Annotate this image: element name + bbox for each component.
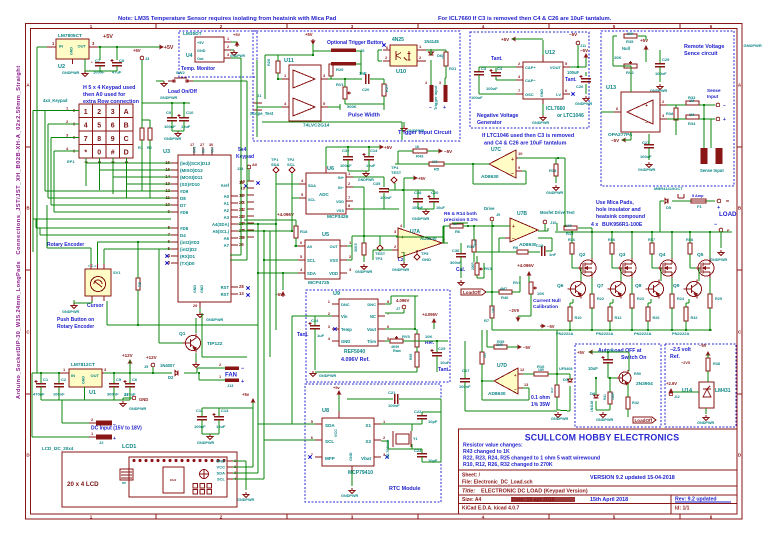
svg-text:2: 2 bbox=[394, 244, 397, 249]
svg-text:R36: R36 bbox=[568, 238, 575, 242]
svg-text:R6: R6 bbox=[455, 229, 461, 234]
svg-text:C5: C5 bbox=[116, 377, 122, 382]
svg-text:D: D bbox=[738, 453, 742, 458]
svg-text:+12V: +12V bbox=[146, 355, 157, 360]
svg-text:TEST: TEST bbox=[391, 170, 402, 175]
svg-text:Q6: Q6 bbox=[557, 283, 564, 289]
svg-text:+5V: +5V bbox=[133, 48, 141, 53]
svg-text:2: 2 bbox=[328, 311, 331, 316]
svg-text:R6 & R14 both: R6 & R14 both bbox=[444, 211, 477, 217]
svg-text:+5V: +5V bbox=[103, 34, 113, 40]
svg-text:GNDPWR: GNDPWR bbox=[697, 421, 715, 425]
svg-text:PN2222A: PN2222A bbox=[596, 331, 613, 336]
svg-text:249K: 249K bbox=[473, 239, 477, 247]
svg-text:OUT: OUT bbox=[91, 373, 100, 378]
svg-text:7: 7 bbox=[348, 195, 351, 200]
svg-text:100uF: 100uF bbox=[640, 154, 652, 159]
svg-text:−: − bbox=[723, 103, 726, 109]
svg-text:RV3: RV3 bbox=[484, 266, 492, 271]
svg-text:R29: R29 bbox=[336, 67, 344, 72]
svg-text:3: 3 bbox=[66, 133, 69, 138]
svg-text:LV: LV bbox=[556, 92, 561, 97]
svg-text:RV1: RV1 bbox=[336, 82, 344, 87]
svg-text:4N25: 4N25 bbox=[392, 37, 404, 43]
svg-text:LM431: LM431 bbox=[715, 388, 731, 394]
svg-text:1: 1 bbox=[227, 37, 229, 41]
svg-text:−5V: −5V bbox=[580, 48, 588, 53]
svg-text:−: − bbox=[645, 120, 648, 126]
svg-text:+5V: +5V bbox=[418, 176, 426, 181]
svg-text:29: 29 bbox=[193, 304, 197, 308]
svg-text:5: 5 bbox=[300, 254, 303, 259]
svg-text:SDA: SDA bbox=[307, 271, 316, 276]
svg-text:#: # bbox=[111, 150, 115, 157]
svg-text:R12: R12 bbox=[615, 316, 622, 320]
svg-text:5: 5 bbox=[301, 192, 304, 197]
svg-text:6: 6 bbox=[111, 123, 115, 130]
svg-text:C6: C6 bbox=[132, 377, 138, 382]
svg-text:+: + bbox=[443, 105, 446, 111]
svg-text:GNDPWR: GNDPWR bbox=[710, 258, 728, 262]
svg-text:1: 1 bbox=[52, 41, 55, 46]
svg-text:DC Input (15V to 18V): DC Input (15V to 18V) bbox=[91, 426, 142, 432]
svg-text:1nF: 1nF bbox=[549, 252, 557, 257]
svg-text:1N4148: 1N4148 bbox=[590, 401, 594, 412]
svg-text:−2V9: −2V9 bbox=[509, 308, 520, 313]
svg-text:SV1: SV1 bbox=[113, 270, 121, 275]
svg-text:3: 3 bbox=[349, 267, 352, 272]
svg-text:100uF: 100uF bbox=[567, 70, 580, 75]
svg-text:Tant.: Tant. bbox=[438, 367, 450, 373]
svg-text:GND: GND bbox=[422, 257, 431, 262]
svg-text:Remote Voltage: Remote Voltage bbox=[684, 44, 724, 50]
svg-text:2: 2 bbox=[91, 417, 94, 422]
svg-text:100nF: 100nF bbox=[340, 163, 352, 168]
svg-text:(int2)D2: (int2)D2 bbox=[180, 247, 197, 252]
svg-text:Vin: Vin bbox=[341, 314, 348, 319]
svg-text:F1: F1 bbox=[697, 204, 702, 209]
svg-text:Temp. Monitor: Temp. Monitor bbox=[181, 66, 215, 72]
svg-text:SDA: SDA bbox=[217, 471, 226, 476]
svg-text:R8: R8 bbox=[138, 282, 142, 287]
svg-text:SCL: SCL bbox=[217, 477, 226, 482]
svg-text:Y1: Y1 bbox=[413, 437, 418, 441]
svg-text:Vbat: Vbat bbox=[361, 456, 371, 461]
svg-text:10pF: 10pF bbox=[428, 419, 438, 424]
svg-text:+5v: +5v bbox=[333, 385, 341, 390]
svg-text:C8: C8 bbox=[119, 58, 125, 63]
svg-text:C17: C17 bbox=[462, 368, 470, 373]
svg-text:1N4007: 1N4007 bbox=[160, 363, 175, 368]
svg-text:VSS: VSS bbox=[330, 258, 339, 263]
svg-text:or LTC1046: or LTC1046 bbox=[557, 113, 584, 119]
svg-text:Q5: Q5 bbox=[697, 252, 704, 258]
svg-text:+5V: +5V bbox=[384, 145, 392, 150]
svg-text:CAP−: CAP− bbox=[525, 78, 536, 83]
svg-text:MFP: MFP bbox=[325, 456, 335, 461]
svg-text:J1: J1 bbox=[257, 93, 262, 98]
svg-text:A6: A6 bbox=[224, 236, 230, 241]
svg-text:8: 8 bbox=[97, 136, 101, 143]
svg-text:2: 2 bbox=[383, 435, 386, 440]
svg-text:U10: U10 bbox=[396, 69, 406, 75]
svg-text:BUK956R1-100E: BUK956R1-100E bbox=[602, 222, 643, 228]
svg-text:4.096V: 4.096V bbox=[396, 298, 409, 303]
svg-text:NC: NC bbox=[370, 314, 376, 319]
svg-text:U3: U3 bbox=[163, 149, 170, 155]
svg-text:U8: U8 bbox=[322, 408, 329, 414]
svg-text:R26: R26 bbox=[653, 316, 660, 320]
svg-text:C36: C36 bbox=[452, 248, 460, 253]
svg-text:C10: C10 bbox=[186, 110, 194, 115]
svg-text:GND: GND bbox=[341, 339, 350, 344]
svg-text:C2: C2 bbox=[61, 377, 67, 382]
svg-text:6: 6 bbox=[565, 88, 568, 93]
svg-text:m: m bbox=[726, 199, 729, 203]
svg-text:−5V: −5V bbox=[547, 324, 555, 329]
svg-text:GND: GND bbox=[70, 47, 74, 55]
svg-text:C35: C35 bbox=[373, 181, 381, 186]
svg-text:2: 2 bbox=[348, 181, 351, 186]
svg-text:LCD_I2C_20x4: LCD_I2C_20x4 bbox=[42, 446, 74, 451]
svg-text:J5: J5 bbox=[144, 365, 148, 369]
svg-text:1: 1 bbox=[63, 367, 66, 372]
svg-text:J7: J7 bbox=[396, 307, 400, 311]
svg-text:6: 6 bbox=[387, 324, 390, 329]
svg-text:−: − bbox=[511, 171, 514, 177]
svg-text:R33: R33 bbox=[688, 95, 696, 100]
svg-text:Tant.: Tant. bbox=[565, 77, 577, 83]
svg-text:R21: R21 bbox=[449, 66, 457, 71]
svg-text:Trigger Input Circuit: Trigger Input Circuit bbox=[398, 130, 452, 136]
svg-text:Generator: Generator bbox=[477, 120, 502, 126]
svg-text:U11: U11 bbox=[284, 58, 294, 64]
svg-text:1: 1 bbox=[383, 419, 386, 424]
svg-text:A4(SDA): A4(SDA) bbox=[212, 222, 230, 227]
svg-text:GNDPWR: GNDPWR bbox=[197, 441, 215, 445]
svg-text:20 x 4 LCD: 20 x 4 LCD bbox=[67, 481, 99, 488]
svg-text:100nF: 100nF bbox=[194, 424, 206, 429]
svg-text:A0: A0 bbox=[224, 194, 230, 199]
svg-text:GNDPWR: GNDPWR bbox=[551, 417, 569, 421]
svg-text:LoadOff: LoadOff bbox=[463, 290, 481, 295]
svg-text:heatsink compound: heatsink compound bbox=[596, 214, 645, 220]
svg-text:GNDPWR: GNDPWR bbox=[62, 310, 80, 314]
svg-text:C26: C26 bbox=[576, 84, 584, 89]
svg-text:Connections_JST/JST_XH_B02B-XH: Connections_JST/JST_XH_B02B-XH-A_02x2.50… bbox=[16, 65, 22, 254]
svg-text:+5V: +5V bbox=[233, 32, 241, 37]
svg-text:Note: LM35 Temperature Sensor: Note: LM35 Temperature Sensor requires i… bbox=[118, 16, 337, 22]
svg-text:Rotary Encoder: Rotary Encoder bbox=[57, 324, 94, 330]
svg-text:< C =: < C = bbox=[88, 264, 96, 268]
svg-text:C20: C20 bbox=[431, 190, 439, 195]
svg-text:hole insulator and: hole insulator and bbox=[596, 207, 641, 213]
svg-text:R58: R58 bbox=[686, 238, 693, 242]
svg-text:4: 4 bbox=[300, 267, 303, 272]
svg-text:Push Button on: Push Button on bbox=[57, 317, 94, 323]
svg-text:10uF: 10uF bbox=[588, 366, 598, 371]
svg-text:VCC: VCC bbox=[217, 465, 226, 470]
svg-text:100uF: 100uF bbox=[471, 95, 483, 100]
svg-text:2: 2 bbox=[227, 45, 229, 49]
svg-text:#D5: #D5 bbox=[180, 226, 189, 231]
svg-text:J2: J2 bbox=[99, 440, 104, 445]
svg-text:2: 2 bbox=[518, 61, 521, 66]
svg-text:−2V5: −2V5 bbox=[681, 361, 690, 365]
svg-text:16x2: 16x2 bbox=[170, 478, 177, 482]
svg-text:MCP4725: MCP4725 bbox=[308, 280, 330, 286]
svg-text:R20: R20 bbox=[267, 59, 271, 66]
svg-text:Null: Null bbox=[622, 46, 630, 51]
svg-text:U7B: U7B bbox=[517, 211, 527, 217]
svg-text:Use Mica Pads,: Use Mica Pads, bbox=[596, 200, 634, 206]
svg-text:IN: IN bbox=[59, 44, 63, 49]
svg-text:100uF: 100uF bbox=[486, 86, 498, 91]
svg-text:1M: 1M bbox=[689, 113, 694, 117]
svg-text:4: 4 bbox=[284, 101, 287, 106]
svg-text:−5V: −5V bbox=[569, 32, 577, 37]
svg-text:28: 28 bbox=[239, 284, 244, 289]
svg-text:VDD: VDD bbox=[329, 271, 338, 276]
svg-text:−: − bbox=[429, 105, 432, 111]
svg-text:C11: C11 bbox=[196, 408, 204, 413]
svg-text:Sense Input: Sense Input bbox=[700, 168, 724, 173]
svg-text:500K: 500K bbox=[347, 104, 357, 109]
svg-text:#D6: #D6 bbox=[180, 210, 189, 215]
svg-text:LM35DT: LM35DT bbox=[183, 31, 202, 37]
svg-text:U1: U1 bbox=[89, 390, 96, 396]
svg-text:100nF: 100nF bbox=[655, 71, 667, 76]
svg-text:IN+: IN+ bbox=[338, 176, 345, 180]
svg-text:B: B bbox=[124, 123, 129, 130]
svg-text:then A0 used for: then A0 used for bbox=[83, 92, 126, 98]
svg-text:GND: GND bbox=[139, 397, 148, 402]
svg-text:U7A: U7A bbox=[410, 229, 420, 235]
svg-text:PN2222A: PN2222A bbox=[672, 331, 689, 336]
svg-text:100nF: 100nF bbox=[164, 124, 176, 129]
svg-text:1: 1 bbox=[91, 431, 94, 436]
svg-text:AD8630: AD8630 bbox=[519, 242, 537, 248]
svg-text:1uF: 1uF bbox=[317, 333, 325, 338]
svg-text:Input: Input bbox=[707, 94, 719, 99]
svg-text:Sence circuit: Sence circuit bbox=[684, 51, 718, 57]
svg-text:−: − bbox=[241, 366, 244, 372]
svg-text:10: 10 bbox=[518, 151, 523, 156]
svg-text:20K: 20K bbox=[627, 32, 634, 36]
svg-text:4x4_Keypad: 4x4_Keypad bbox=[43, 98, 68, 103]
svg-text:2: 2 bbox=[97, 109, 101, 116]
svg-text:0: 0 bbox=[97, 150, 101, 157]
svg-text:R3d: R3d bbox=[666, 112, 674, 116]
svg-text:Resistor value changes:: Resistor value changes: bbox=[463, 443, 523, 449]
svg-text:6: 6 bbox=[616, 106, 619, 111]
svg-text:+: + bbox=[241, 379, 244, 385]
svg-text:RV5: RV5 bbox=[402, 334, 410, 339]
svg-text:74LVC2G14: 74LVC2G14 bbox=[303, 123, 330, 129]
svg-text:Sense: Sense bbox=[707, 88, 721, 93]
svg-text:U14: U14 bbox=[682, 388, 693, 394]
svg-text:GND: GND bbox=[200, 285, 204, 293]
svg-text:X1: X1 bbox=[365, 423, 371, 428]
svg-text:R22: R22 bbox=[597, 297, 604, 301]
svg-text:A3: A3 bbox=[224, 215, 230, 220]
svg-text:GNDPWR: GNDPWR bbox=[358, 178, 374, 182]
svg-text:1K: 1K bbox=[415, 145, 420, 149]
svg-text:3: 3 bbox=[92, 41, 95, 46]
svg-text:Pulse Width: Pulse Width bbox=[348, 113, 381, 119]
svg-text:R27: R27 bbox=[384, 84, 389, 92]
svg-text:RST: RST bbox=[221, 285, 230, 290]
svg-text:+: + bbox=[512, 224, 515, 230]
svg-text:R5: R5 bbox=[434, 167, 440, 172]
svg-text:10K: 10K bbox=[425, 334, 432, 339]
svg-text:10uF: 10uF bbox=[181, 124, 191, 129]
svg-text:1: 1 bbox=[328, 299, 331, 304]
svg-text:17: 17 bbox=[190, 143, 194, 147]
svg-text:R39: R39 bbox=[497, 339, 505, 344]
svg-text:ADC: ADC bbox=[319, 192, 329, 197]
svg-text:U9: U9 bbox=[333, 291, 340, 297]
svg-text:D8: D8 bbox=[180, 196, 186, 201]
svg-text:R25: R25 bbox=[715, 297, 722, 301]
svg-text:SCULLCOM HOBBY ELECTRONICS: SCULLCOM HOBBY ELECTRONICS bbox=[525, 433, 680, 443]
svg-text:R38: R38 bbox=[713, 362, 720, 366]
svg-text:15th April 2018: 15th April 2018 bbox=[590, 497, 628, 503]
svg-text:#D9: #D9 bbox=[180, 189, 189, 194]
svg-text:R16: R16 bbox=[537, 364, 545, 369]
svg-text:Drive: Drive bbox=[484, 206, 495, 211]
svg-text:1N4148: 1N4148 bbox=[424, 39, 439, 44]
svg-text:GNDPWR: GNDPWR bbox=[206, 318, 224, 322]
svg-text:2: 2 bbox=[385, 55, 388, 60]
svg-text:10uF: 10uF bbox=[216, 424, 226, 429]
svg-text:Tant.: Tant. bbox=[491, 56, 503, 62]
svg-text:13: 13 bbox=[239, 291, 244, 296]
svg-text:Vin: Vin bbox=[211, 147, 215, 153]
svg-text:VSS: VSS bbox=[336, 209, 344, 213]
svg-text:A1: A1 bbox=[224, 201, 230, 206]
svg-text:GNDPWR: GNDPWR bbox=[638, 168, 656, 172]
svg-text:R23: R23 bbox=[637, 297, 644, 301]
svg-text:1: 1 bbox=[348, 171, 351, 176]
svg-text:R7: R7 bbox=[484, 318, 490, 323]
svg-text:X2: X2 bbox=[365, 439, 371, 444]
svg-text:RP: RP bbox=[122, 481, 126, 485]
svg-text:C14: C14 bbox=[370, 148, 378, 153]
svg-text:U7D: U7D bbox=[497, 363, 507, 369]
svg-text:GNDPWR: GNDPWR bbox=[129, 407, 147, 411]
svg-text:R34: R34 bbox=[688, 121, 696, 126]
svg-text:3: 3 bbox=[439, 81, 441, 85]
svg-text:1nF: 1nF bbox=[359, 71, 367, 76]
svg-text:−5V: −5V bbox=[444, 149, 452, 154]
svg-text:2: 2 bbox=[219, 363, 221, 367]
svg-text:If LTC1046 used then C3 is rem: If LTC1046 used then C3 is removed bbox=[482, 133, 574, 139]
svg-text:A5(SCL): A5(SCL) bbox=[212, 229, 229, 234]
svg-text:GNDPWR: GNDPWR bbox=[546, 191, 564, 195]
svg-text:DNC: DNC bbox=[367, 302, 376, 307]
svg-text:+: + bbox=[645, 103, 648, 109]
svg-text:R13: R13 bbox=[549, 168, 557, 173]
svg-text:Trigger Input: Trigger Input bbox=[433, 85, 438, 110]
svg-text:TIP122: TIP122 bbox=[207, 341, 223, 347]
svg-text:DNC: DNC bbox=[341, 302, 350, 307]
svg-text:Raw: Raw bbox=[393, 349, 401, 353]
svg-text:SDA: SDA bbox=[325, 423, 335, 428]
svg-text:470uF: 470uF bbox=[33, 392, 45, 397]
svg-text:2: 2 bbox=[419, 55, 422, 60]
svg-text:5: 5 bbox=[323, 101, 326, 106]
svg-text:C22: C22 bbox=[414, 409, 422, 414]
svg-text:J12: J12 bbox=[674, 395, 680, 399]
svg-text:Tant.: Tant. bbox=[297, 332, 309, 338]
svg-text:CAP+: CAP+ bbox=[525, 65, 536, 70]
svg-text:Q1: Q1 bbox=[179, 331, 186, 337]
svg-text:−5V: −5V bbox=[611, 138, 619, 143]
svg-text:4: 4 bbox=[66, 146, 69, 151]
svg-text:Sheet: /: Sheet: / bbox=[462, 473, 481, 479]
svg-text:PN2222A: PN2222A bbox=[634, 331, 651, 336]
svg-text:4: 4 bbox=[84, 123, 88, 130]
svg-text:30: 30 bbox=[209, 143, 213, 147]
svg-text:Aref: Aref bbox=[221, 183, 230, 188]
svg-text:C: C bbox=[26, 330, 30, 335]
svg-text:3V3: 3V3 bbox=[193, 147, 197, 153]
svg-text:SCL: SCL bbox=[307, 258, 316, 263]
svg-text:R10: R10 bbox=[575, 316, 582, 320]
svg-text:GND: GND bbox=[197, 49, 206, 53]
svg-text:GNDPWR: GNDPWR bbox=[744, 43, 762, 48]
svg-text:SDA: SDA bbox=[308, 184, 316, 188]
svg-text:1: 1 bbox=[284, 73, 287, 78]
svg-text:Q3: Q3 bbox=[619, 252, 626, 258]
svg-text:Q9: Q9 bbox=[673, 283, 680, 289]
svg-text:GNDPWR: GNDPWR bbox=[164, 137, 182, 141]
svg-text:GND: GND bbox=[349, 452, 353, 461]
svg-text:C25: C25 bbox=[438, 346, 446, 351]
svg-text:L2: L2 bbox=[398, 257, 404, 262]
svg-text:2: 2 bbox=[66, 119, 69, 124]
svg-text:REF5040: REF5040 bbox=[344, 349, 365, 355]
svg-text:GNDPWR: GNDPWR bbox=[160, 96, 178, 100]
svg-text:+12V: +12V bbox=[122, 353, 133, 358]
svg-text:SDA: SDA bbox=[271, 162, 280, 167]
svg-text:R10, R12, R26, R32 changed to: R10, R12, R26, R32 changed to 270K bbox=[463, 462, 553, 468]
svg-text:C13: C13 bbox=[221, 408, 229, 413]
svg-text:R17: R17 bbox=[550, 387, 554, 393]
svg-text:IN: IN bbox=[71, 373, 75, 378]
svg-text:VOUT: VOUT bbox=[550, 65, 562, 70]
svg-text:D2: D2 bbox=[168, 375, 174, 380]
svg-text:R22, R23, R24, R25 changed to: R22, R23, R24, R25 changed to 1 ohm 5 wa… bbox=[463, 456, 600, 462]
svg-text:TP3: TP3 bbox=[375, 256, 383, 261]
svg-text:R50: R50 bbox=[634, 372, 641, 376]
svg-text:EP1: EP1 bbox=[67, 159, 75, 164]
svg-text:LoadOff: LoadOff bbox=[635, 418, 653, 423]
svg-text:C1: C1 bbox=[43, 377, 49, 382]
svg-text:4: 4 bbox=[328, 336, 331, 341]
svg-text:1: 1 bbox=[66, 106, 69, 111]
svg-text:−: − bbox=[512, 236, 515, 242]
svg-text:J10: J10 bbox=[550, 221, 556, 225]
svg-text:Size: A4: Size: A4 bbox=[462, 497, 481, 503]
svg-text:D5: D5 bbox=[666, 205, 672, 210]
svg-text:A: A bbox=[124, 109, 129, 116]
svg-text:6: 6 bbox=[311, 435, 314, 440]
svg-text:Mosfet Drive Test: Mosfet Drive Test bbox=[540, 210, 575, 215]
svg-text:20K: 20K bbox=[614, 55, 621, 60]
svg-text:2N3904: 2N3904 bbox=[636, 381, 653, 387]
